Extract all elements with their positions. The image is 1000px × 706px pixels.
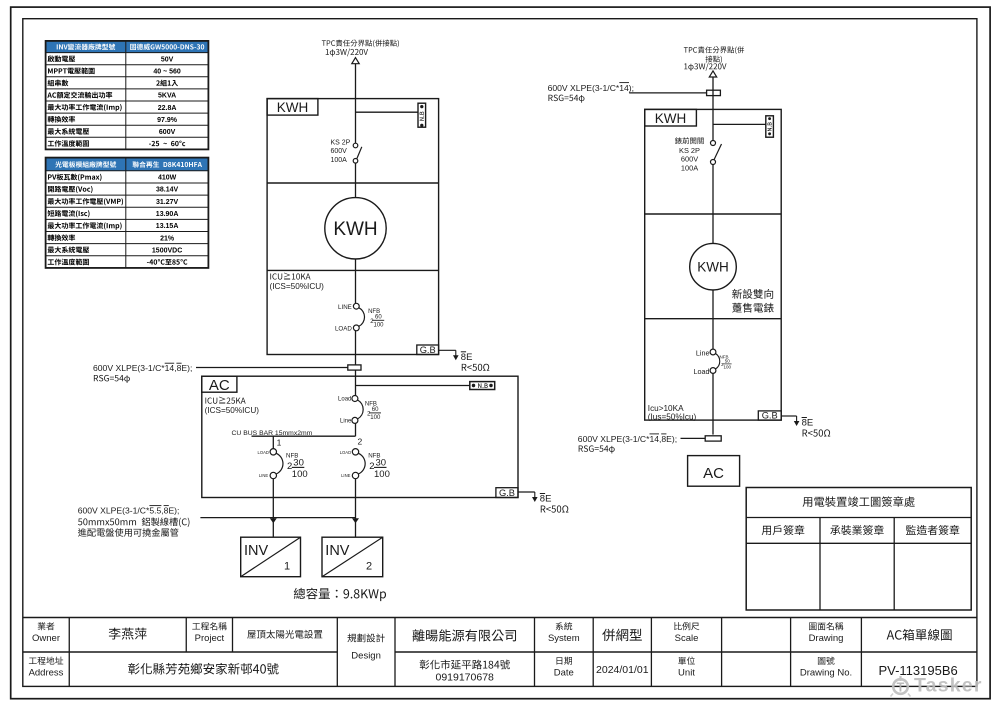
svg-text:5KVA: 5KVA — [158, 93, 176, 100]
svg-text:Load: Load — [338, 396, 351, 402]
svg-text:LINE: LINE — [259, 473, 269, 478]
svg-text:T: T — [897, 681, 905, 695]
svg-text:60: 60 — [375, 315, 382, 321]
meter box KWH (right) — [645, 109, 782, 420]
svg-text:0919170678: 0919170678 — [435, 672, 494, 684]
svg-text:100: 100 — [292, 469, 308, 480]
svg-text:1: 1 — [284, 561, 290, 573]
svg-text:Drawing: Drawing — [809, 633, 844, 644]
node TPC connection point (right service) — [684, 46, 744, 77]
terminal N.B (right meter box) — [713, 116, 773, 137]
svg-text:21%: 21% — [160, 235, 175, 242]
svg-text:Owner: Owner — [32, 633, 60, 644]
svg-text:Drawing No.: Drawing No. — [800, 668, 852, 679]
wire meter box to AC panel — [355, 370, 357, 395]
wire AC panel to INV2 — [355, 479, 357, 537]
wire meter to breaker — [355, 259, 357, 304]
svg-text:22.8A: 22.8A — [158, 105, 177, 112]
svg-text:40 ~ 560: 40 ~ 560 — [153, 69, 181, 76]
inverter INV2 — [322, 537, 383, 577]
svg-text:31.27V: 31.27V — [156, 199, 179, 206]
svg-text:600V XLPE(3-1/C*5.5,8E);: 600V XLPE(3-1/C*5.5,8E); — [78, 506, 180, 516]
svg-text:13.15A: 13.15A — [156, 223, 179, 230]
svg-text:LOAD: LOAD — [335, 326, 352, 333]
svg-text:System: System — [548, 633, 580, 644]
svg-text:Load: Load — [694, 367, 710, 376]
switch 錶前開關 KS 2P 600V 100A (right) — [675, 137, 722, 172]
watermark Tasker — [891, 675, 983, 697]
svg-text:AC: AC — [703, 465, 724, 482]
meter box KWH (left) — [267, 99, 439, 355]
panel AC (left) — [202, 376, 518, 497]
svg-text:1500VDC: 1500VDC — [152, 247, 182, 254]
svg-text:Line: Line — [340, 419, 352, 425]
wire breaker to bus — [355, 423, 357, 436]
svg-text:Design: Design — [351, 651, 381, 662]
svg-text:G.B: G.B — [499, 488, 515, 498]
terminal N.B (left meter box) — [356, 103, 426, 127]
ground bus G.B (right meter box) — [758, 411, 830, 437]
wire breaker to box bottom — [355, 331, 357, 365]
wire branch 1 drop — [272, 436, 274, 449]
svg-text:LOAD: LOAD — [340, 450, 351, 455]
breaker NFB 2P 60/100 (AC main) — [338, 396, 381, 425]
svg-text:LINE: LINE — [338, 304, 352, 311]
note ICU>=10KA — [270, 273, 325, 291]
svg-text:1: 1 — [277, 437, 282, 447]
svg-text:600V: 600V — [681, 155, 698, 164]
wire service drop (right) — [712, 77, 714, 141]
meter KWH (right) — [690, 243, 737, 290]
svg-text:100: 100 — [374, 323, 385, 329]
wire switch to meter — [355, 164, 357, 198]
svg-text:Tasker: Tasker — [914, 675, 983, 697]
svg-text:Unit: Unit — [678, 668, 695, 679]
svg-text:60: 60 — [372, 407, 379, 413]
breaker NFB 2P 30/100 #2 — [340, 449, 390, 480]
svg-text:Line: Line — [696, 349, 710, 358]
svg-text:KWH: KWH — [697, 260, 729, 275]
svg-text:KS 2P: KS 2P — [679, 146, 700, 155]
box AC (right) — [688, 456, 740, 487]
inverter INV1 — [241, 537, 301, 577]
svg-text:KWH: KWH — [277, 100, 309, 115]
svg-text:50V: 50V — [161, 56, 174, 63]
svg-text:LOAD: LOAD — [257, 450, 268, 455]
wire switch down (right) — [712, 165, 714, 244]
ground bus G.B (left meter box) — [417, 345, 490, 371]
breaker NFB 2P 50/100 (right) — [694, 349, 732, 376]
wire service drop to left meter box — [355, 64, 357, 144]
node TPC connection point (left service) — [322, 40, 399, 64]
svg-text:100: 100 — [370, 415, 381, 421]
cable marker 600V XLPE(3-1/C*14,8E) (right bottom) — [578, 434, 721, 454]
svg-text:KWH: KWH — [333, 219, 377, 240]
svg-text:50: 50 — [725, 359, 731, 364]
cable marker 600V XLPE(3-1/C*14,8E) — [93, 363, 361, 383]
svg-text:2: 2 — [366, 561, 372, 573]
svg-text:Date: Date — [554, 668, 574, 679]
svg-text:LINE: LINE — [341, 473, 351, 478]
svg-text:38.14V: 38.14V — [156, 187, 179, 194]
cable tray line with arrows (to inverters) — [200, 518, 359, 524]
svg-text:(Ius=50%Icu): (Ius=50%Icu) — [648, 412, 697, 421]
svg-text:8E: 8E — [461, 352, 473, 363]
svg-text:AC: AC — [209, 377, 230, 394]
svg-text:600V XLPE(3-1/C*14,8E);: 600V XLPE(3-1/C*14,8E); — [578, 434, 677, 444]
ground bus G.B (AC panel) — [496, 488, 569, 513]
label total capacity — [294, 588, 386, 601]
svg-text:13.90A: 13.90A — [156, 211, 179, 218]
svg-text:30: 30 — [376, 457, 387, 468]
svg-text:G.B: G.B — [762, 411, 778, 421]
svg-text:(ICS=50%ICU): (ICS=50%ICU) — [205, 406, 260, 415]
svg-text:G.B: G.B — [420, 345, 436, 355]
svg-text:8E: 8E — [540, 494, 552, 505]
svg-text:97.9%: 97.9% — [157, 117, 178, 124]
svg-text:8E: 8E — [802, 418, 814, 429]
terminal N.B (AC panel) — [356, 382, 495, 390]
svg-text:100: 100 — [724, 365, 732, 370]
bus CU BUS BAR 15mmx2mm — [232, 430, 363, 448]
title block — [23, 618, 977, 687]
svg-text:600V: 600V — [159, 129, 176, 136]
svg-text:KWH: KWH — [655, 111, 687, 126]
svg-text:30: 30 — [293, 457, 304, 468]
svg-text:INV: INV — [244, 543, 269, 559]
breaker NFB 2P 60/100 (left meter box) — [335, 303, 384, 332]
svg-text:100A: 100A — [681, 164, 698, 173]
svg-text:600V: 600V — [331, 148, 348, 155]
table T2 PV module spec — [46, 158, 209, 268]
wire meter to breaker (right) — [712, 290, 714, 349]
table signature block — [746, 488, 971, 611]
svg-text:100A: 100A — [331, 157, 348, 164]
table T1 inverter spec — [46, 41, 209, 149]
note Icu>10KA (right) — [648, 404, 697, 422]
svg-text:Project: Project — [195, 633, 225, 644]
svg-text:2024/01/01: 2024/01/01 — [596, 664, 649, 676]
svg-text:Address: Address — [29, 668, 64, 679]
breaker NFB 2P 30/100 #1 — [257, 449, 307, 480]
svg-text:100: 100 — [374, 469, 390, 480]
svg-text:INV: INV — [325, 543, 350, 559]
svg-text:Scale: Scale — [675, 633, 699, 644]
svg-text:2: 2 — [358, 437, 363, 447]
label 新設雙向躉售電錶 — [732, 289, 774, 313]
svg-text:KS 2P: KS 2P — [331, 140, 351, 147]
svg-text:(ICS=50%ICU): (ICS=50%ICU) — [270, 282, 325, 291]
label cable spec to inverters — [78, 506, 190, 537]
svg-text:600V XLPE(3-1/C*14);: 600V XLPE(3-1/C*14); — [548, 83, 634, 93]
wire AC panel to INV1 — [272, 479, 274, 538]
meter KWH (left) — [325, 198, 386, 259]
wire breaker to box bottom (right) — [712, 373, 714, 434]
cable marker 600V XLPE(3-1/C*14) (right top) — [548, 83, 721, 103]
svg-text:410W: 410W — [158, 175, 177, 182]
switch KS 2P 600V 100A (left) — [331, 140, 362, 165]
svg-text:600V XLPE(3-1/C*14,8E);: 600V XLPE(3-1/C*14,8E); — [93, 363, 192, 373]
